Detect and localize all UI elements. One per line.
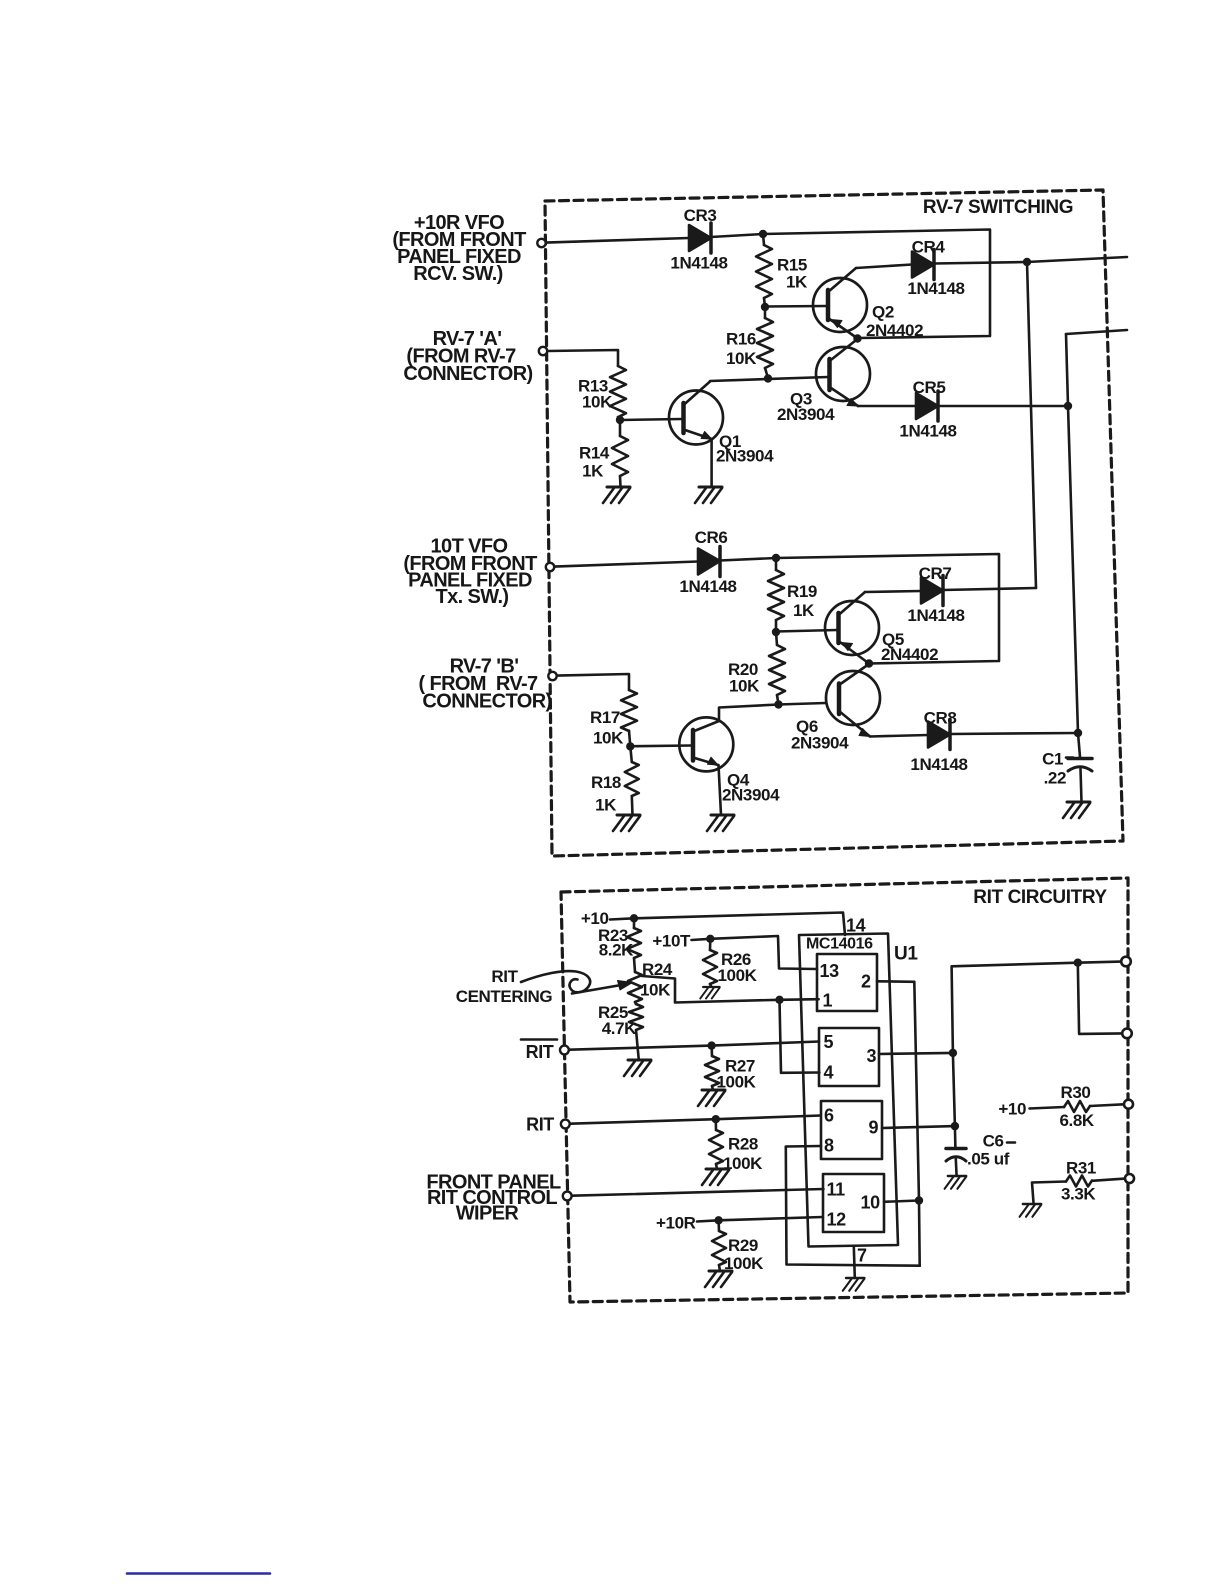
tick after C6 label (1007, 1141, 1015, 1144)
diode CR8 (928, 720, 950, 750)
junction J17 (RIT-bar / R27 top) (707, 1041, 715, 1049)
resistor R14 (612, 420, 628, 487)
svg-text:C6: C6 (983, 1132, 1004, 1151)
junction J9 (CR6 cathode / R19 top) (772, 554, 780, 562)
terminal +10R VFO (537, 239, 545, 247)
diode CR5 (916, 391, 938, 421)
svg-text:10K: 10K (726, 349, 757, 368)
svg-text:6.8K: 6.8K (1060, 1111, 1095, 1130)
ground (R28) (702, 1169, 729, 1185)
resistor R25 (629, 1004, 643, 1030)
svg-text:2N4402: 2N4402 (866, 321, 923, 340)
resistor R28 (709, 1119, 723, 1169)
svg-text:2N3904: 2N3904 (777, 405, 835, 424)
wire +10 to J14 (610, 918, 634, 919)
junction J4 (R16 bottom / Q1 collector / Q3 base) (764, 374, 772, 382)
junction J19 (+10R / R29 top) (714, 1216, 722, 1224)
wire pin 3 to J22 (879, 1053, 953, 1054)
terminal exit C (1124, 1100, 1133, 1109)
wire exit 1 (to right) (1027, 257, 1127, 262)
svg-text:2N3904: 2N3904 (722, 786, 780, 805)
svg-text:RIT: RIT (526, 1115, 554, 1135)
transistor Q3 2N3904 (816, 339, 870, 406)
transistor Q6 2N3904 (826, 664, 880, 737)
wire +10R to J19 (697, 1220, 719, 1221)
capacitor C6 (946, 1149, 966, 1177)
ground (C6) (945, 1176, 967, 1189)
svg-text:100K: 100K (718, 966, 758, 985)
svg-text:.22: .22 (1044, 769, 1066, 788)
wire R13 to J5 (618, 417, 620, 420)
wire J3 to Q2 base (765, 305, 827, 308)
svg-text:1N4148: 1N4148 (899, 422, 956, 441)
resistor R15 (756, 245, 772, 298)
junction J12 (R20 bottom / Q4 collector / Q6 base) (774, 700, 782, 708)
junction J23 (pin 9 / C6 top) (951, 1122, 959, 1130)
overline of RIT-bar (521, 1038, 557, 1041)
svg-text:+10: +10 (998, 1100, 1026, 1119)
wire CR4 to J6 (934, 262, 1027, 264)
svg-text:WIPER: WIPER (456, 1203, 520, 1225)
junction J22 (pin 3 node) (949, 1049, 957, 1057)
wire R24 to R25 (635, 1002, 636, 1004)
diode CR7 (921, 576, 943, 606)
svg-text:RIT: RIT (526, 1042, 554, 1062)
terminal exit B (1122, 1029, 1132, 1039)
node label RIT CENTERING (456, 967, 553, 1006)
svg-text:RV-7 SWITCHING: RV-7 SWITCHING (923, 197, 1073, 218)
callout squiggle RIT CENTERING (521, 971, 590, 992)
wire R30 to exit terminal C (1090, 1104, 1124, 1106)
svg-text:CR8: CR8 (924, 709, 957, 728)
junction J13 (R17/R18/Q4 base) (626, 742, 634, 750)
wire Q3 emitter to CR5 (858, 405, 916, 408)
resistor R18 (625, 746, 639, 815)
svg-text:8.2K: 8.2K (599, 941, 634, 960)
wire CR3 to node J1 (711, 234, 763, 237)
wire vertical J6 down to CR7 line (1027, 262, 1036, 588)
junction J14 (+10 / R23 top) (630, 914, 638, 922)
wire right loop vertical (914, 982, 919, 1266)
svg-text:R16: R16 (726, 330, 756, 349)
svg-text:.05 uf: .05 uf (967, 1150, 1010, 1169)
svg-text:6: 6 (824, 1106, 834, 1126)
svg-text:Q2: Q2 (872, 303, 894, 322)
switch box U1c (821, 1101, 882, 1159)
junction J7 (CR5 output on vertical) (1064, 402, 1072, 410)
svg-text:4: 4 (824, 1063, 834, 1083)
svg-text:10K: 10K (729, 677, 760, 696)
wire CR5 to J7 (938, 405, 1068, 408)
wire Q1 emitter to ground (710, 439, 713, 487)
wire pin 7 stub (854, 1246, 855, 1278)
svg-text:1N4148: 1N4148 (670, 254, 727, 273)
callout arrowhead (618, 981, 633, 991)
op IC U1 MC14016 outer box (799, 934, 898, 1247)
potentiometer R24 (628, 972, 642, 1002)
junction J3 (R15/R16/Q2 base) (761, 303, 769, 311)
transistor Q2 2N4402 (813, 268, 867, 338)
wire R25 to ground (636, 1030, 639, 1060)
wire Q1 collector to J4 to Q3 base (710, 377, 828, 381)
svg-text:11: 11 (827, 1180, 846, 1200)
wire pin 9 to J23 (882, 1126, 955, 1128)
wire RV-7 'B' to R17 (557, 674, 629, 690)
svg-text:1N4148: 1N4148 (907, 279, 964, 298)
ground (pin 7) (843, 1278, 865, 1291)
svg-text:5: 5 (824, 1032, 834, 1052)
junction J6 (CR4 output node) (1023, 258, 1031, 266)
terminal FRONT PANEL RIT CONTROL WIPER (563, 1192, 572, 1201)
node label RV-7 'A' input (403, 328, 532, 385)
resistor R13 (610, 366, 626, 417)
svg-text:1N4148: 1N4148 (907, 606, 964, 625)
blue underline at page bottom (127, 1572, 270, 1575)
ground (R27) (698, 1090, 725, 1106)
resistor R16 (757, 307, 773, 378)
terminal RIT-bar (560, 1046, 569, 1055)
wire J15 jog down to pin 4 (780, 1000, 820, 1073)
svg-text:R14: R14 (579, 444, 610, 463)
wire J22 up and right to exit terminal A (952, 962, 1122, 1053)
resistor R23 (627, 918, 641, 972)
wire Q2 collector to CR4 (856, 265, 912, 269)
svg-text:10K: 10K (582, 393, 613, 412)
junction J8 (CR8 output / C1 top) (1074, 729, 1082, 737)
terminal RV-7 'A' (539, 347, 547, 355)
wire J13 to Q4 base (630, 744, 691, 747)
svg-text:+10T: +10T (652, 932, 691, 951)
svg-text:4.7K: 4.7K (602, 1019, 637, 1038)
resistor R27 (705, 1046, 719, 1090)
junction J20 (pin 10 on loop) (915, 1196, 923, 1204)
transistor Q4 2N3904 (679, 717, 733, 771)
wire J19 to pin 12 (719, 1217, 823, 1220)
resistor R17 (621, 690, 637, 731)
resistor R20 (769, 632, 785, 705)
terminal exit A (1121, 957, 1131, 967)
svg-text:+10R: +10R (656, 1214, 696, 1233)
wire +10R VFO to CR3 (546, 238, 689, 243)
svg-text:8: 8 (824, 1136, 834, 1156)
svg-text:R29: R29 (728, 1236, 758, 1255)
svg-text:9: 9 (869, 1118, 879, 1138)
wire J12 to Q6 base (779, 703, 826, 705)
node label FRONT PANEL RIT CONTROL WIPER (426, 1172, 561, 1225)
wire R31 to exit terminal D (1092, 1179, 1125, 1181)
svg-text:R18: R18 (591, 773, 621, 792)
ground (R25) (624, 1060, 651, 1076)
terminal 10T VFO (546, 563, 554, 571)
diode CR3 (689, 223, 711, 253)
wire R19 to J10 (775, 620, 778, 632)
junction J18 (RIT / R28 top) (712, 1115, 720, 1123)
wire J1 to staple corner (763, 230, 990, 339)
svg-text:CR6: CR6 (695, 528, 728, 547)
svg-text:RCV. SW.): RCV. SW.) (413, 263, 502, 285)
wire J9 staple to Q5 emitter node (776, 554, 999, 664)
svg-text:1K: 1K (793, 601, 815, 620)
wire +10T to J16 (692, 939, 711, 940)
svg-text:1K: 1K (786, 273, 808, 292)
svg-text:CR5: CR5 (913, 378, 946, 397)
svg-text:14: 14 (846, 916, 866, 936)
svg-text:RIT: RIT (491, 967, 518, 986)
resistor R31 (1066, 1176, 1092, 1187)
diode CR6 (698, 547, 720, 577)
svg-text:2N4402: 2N4402 (881, 645, 938, 664)
svg-text:2: 2 (861, 972, 871, 992)
svg-text:13: 13 (820, 961, 840, 981)
svg-text:10K: 10K (593, 729, 624, 748)
wire RIT to pin 6 (570, 1116, 821, 1124)
wire R15 to J3 (764, 298, 765, 307)
wire +10 rail to pin14 (634, 913, 845, 936)
svg-text:7: 7 (857, 1246, 867, 1266)
svg-text:2N3904: 2N3904 (791, 734, 849, 753)
svg-text:R17: R17 (590, 708, 620, 727)
transistor Q1 2N3904 (669, 382, 723, 445)
capacitor C1 (1068, 733, 1092, 802)
wire J24 down to exit terminal B (1078, 963, 1123, 1034)
wire J5 to Q1 base (620, 419, 682, 420)
svg-text:CR3: CR3 (684, 206, 717, 225)
wire Q4 emitter to ground (719, 765, 722, 815)
svg-text:2N3904: 2N3904 (716, 447, 774, 466)
wire CR6 to J9 (720, 558, 776, 561)
resistor R30 (1064, 1101, 1090, 1112)
ground (R14) (603, 487, 630, 503)
terminal RV-7 'B' (548, 672, 556, 680)
junction J24 (exit node) (1074, 959, 1082, 967)
junction J1 (CR3 cathode / R15 top) (759, 230, 767, 238)
svg-text:R30: R30 (1061, 1083, 1091, 1102)
wire R24 wiper to J15 (642, 976, 780, 1003)
dashed border RIT CIRCUITRY box (561, 878, 1128, 1302)
wire R17 to J13 (629, 731, 630, 747)
svg-text:1K: 1K (582, 462, 604, 481)
wire exit 2 corner (1066, 330, 1127, 334)
svg-text:CONNECTOR): CONNECTOR) (422, 691, 551, 713)
svg-text:C1: C1 (1042, 750, 1063, 769)
node label RV-7 'B' input (418, 656, 551, 713)
wire R31 ground leg (1032, 1182, 1066, 1205)
svg-text:10K: 10K (640, 981, 671, 1000)
wire J15 to pin 1 (780, 998, 819, 1001)
svg-text:Tx. SW.): Tx. SW.) (436, 586, 509, 608)
svg-text:12: 12 (827, 1210, 847, 1230)
diode CR4 (912, 250, 934, 280)
wire vertical exit2 corner down to C1 node (1066, 334, 1078, 733)
terminal exit D (1125, 1174, 1134, 1183)
wire J22 to J23 to C6 (953, 1053, 956, 1148)
ground (Q4) (707, 815, 734, 831)
junction J10 (R19/R20/Q5 base) (772, 628, 780, 636)
switch box U1b (819, 1028, 879, 1086)
svg-text:R31: R31 (1066, 1159, 1096, 1178)
wire CR7 to vertical from J6 (943, 588, 1036, 590)
junction J5 (R13/R14/Q1 base) (616, 416, 624, 424)
svg-text:3.3K: 3.3K (1061, 1185, 1096, 1204)
wire +10 to R30 (1030, 1107, 1065, 1109)
wire Q6 emitter to CR8 (870, 735, 928, 737)
svg-text:CR7: CR7 (919, 564, 952, 583)
wire J9 to R19 (775, 558, 778, 570)
wire RIT-bar to pin 5 (569, 1042, 819, 1050)
resistor R29 (712, 1220, 726, 1271)
ground (Q1) (695, 487, 722, 503)
ground (R26) (700, 987, 719, 999)
junction J16 (+10T / R26 top) (706, 935, 714, 943)
wire CR8 to J8 (950, 733, 1078, 734)
junction J2 (Q2 emitter / Q3 collector / staple) (853, 334, 861, 342)
ground (R29) (705, 1271, 732, 1287)
ground (R18) (613, 815, 640, 831)
svg-text:1: 1 (823, 991, 833, 1011)
callout arrow line to R24 wiper (572, 985, 624, 994)
svg-text:RIT CIRCUITRY: RIT CIRCUITRY (973, 887, 1107, 908)
resistor R19 (768, 570, 784, 620)
svg-text:MC14016: MC14016 (806, 936, 873, 953)
wire J1 to R15 (763, 234, 764, 245)
svg-text:3: 3 (867, 1046, 877, 1066)
svg-text:CONNECTOR): CONNECTOR) (403, 363, 532, 385)
svg-text:R19: R19 (787, 582, 817, 601)
svg-text:1K: 1K (595, 796, 617, 815)
switch box U1a (817, 954, 877, 1011)
wire RV-7 'A' to R13 (548, 350, 619, 366)
svg-text:U1: U1 (894, 944, 918, 965)
svg-text:R28: R28 (728, 1135, 758, 1154)
wire pin 8 loop (left, bottom) (786, 1146, 920, 1266)
svg-text:CENTERING: CENTERING (456, 987, 553, 1006)
switch box U1d (823, 1174, 884, 1232)
resistor R26 (703, 939, 717, 986)
tick after C1 label (1066, 756, 1073, 759)
wire pin 10 to J20 (884, 1201, 919, 1202)
ground (C1) (1063, 802, 1090, 818)
svg-text:10: 10 (861, 1193, 881, 1213)
wire Q4 collector to J12 to Q6 base (719, 705, 779, 722)
transistor Q5 2N4402 (825, 592, 879, 664)
svg-text:1N4148: 1N4148 (910, 755, 967, 774)
wire +10T to pin 13 (710, 936, 817, 969)
dashed border RV-7 SWITCHING box (545, 190, 1123, 856)
node label +10R VFO input (392, 212, 526, 285)
wire Q5 collector to CR7 (865, 591, 921, 592)
svg-text:CR4: CR4 (912, 238, 946, 257)
terminal RIT (561, 1120, 570, 1129)
node label 10T VFO input (403, 536, 537, 609)
ground (R31) (1020, 1204, 1042, 1217)
wire pin 2 to right loop (877, 980, 914, 983)
wire wiper terminal to pin 11 (572, 1189, 824, 1196)
wire J10 to Q5 base (776, 630, 837, 632)
wire 10T VFO to CR6 (555, 562, 699, 567)
junction J15 (wiper / pin1 / pin4 jog) (775, 996, 783, 1004)
junction J11 (Q5 emitter / Q6 collector / staple) (865, 659, 873, 667)
svg-text:1N4148: 1N4148 (679, 577, 736, 596)
